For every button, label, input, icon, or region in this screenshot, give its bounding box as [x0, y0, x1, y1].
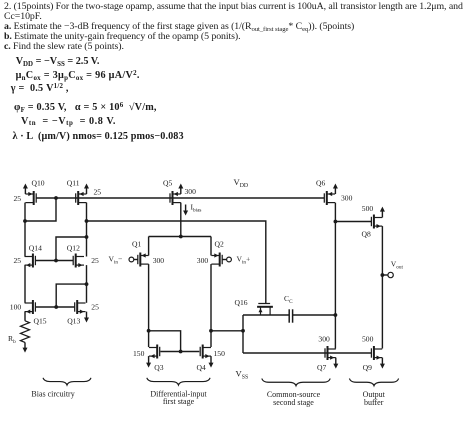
svg-text:100: 100 [10, 303, 22, 312]
wire Q12 source to Q13 drain [86, 265, 88, 303]
label Q9 [363, 363, 372, 372]
svg-text:25: 25 [91, 256, 99, 265]
terminal Vout [388, 272, 393, 277]
value 25 (Q13) [91, 303, 99, 312]
svg-text:150: 150 [214, 349, 226, 358]
node Q16 branch junction [241, 329, 245, 333]
transistor Q16 [257, 304, 273, 315]
svg-text:Ibias: Ibias [191, 203, 202, 214]
wire Q13 diode connection [56, 284, 86, 307]
svg-text:300: 300 [185, 187, 197, 196]
svg-text:Q13: Q13 [67, 317, 80, 326]
svg-text:Q8: Q8 [362, 230, 371, 239]
label VSS [236, 369, 249, 381]
node Q1-Q3 junction [147, 329, 151, 333]
value 300 (Q7) [318, 335, 330, 344]
node Q3-Q4 gate junction [179, 350, 183, 354]
node Q15-Q13 gate junction [54, 305, 58, 309]
svg-text:300: 300 [197, 256, 209, 265]
transistor Q13 [75, 300, 89, 323]
svg-text:second stage: second stage [273, 398, 314, 407]
label Q4 [197, 363, 206, 372]
svg-text:Q1: Q1 [132, 240, 141, 249]
label Q5 [163, 179, 172, 188]
wire Q1 drain to Q3 drain [148, 264, 150, 347]
wire Vout lead [382, 274, 388, 276]
svg-text:Vout: Vout [391, 260, 404, 271]
wire Q16 source to Cc left plate [243, 314, 289, 316]
node gate rail junction [54, 196, 58, 200]
label Q14 [29, 244, 42, 253]
wire Q14-Q12 gate line [35, 260, 73, 262]
svg-text:Q5: Q5 [163, 179, 172, 188]
svg-text:first stage: first stage [163, 397, 195, 406]
wire Q15-Q13 gate line [35, 306, 75, 308]
svg-text:Q7: Q7 [317, 363, 326, 372]
problem statement item a [4, 22, 354, 32]
label Q7 [317, 363, 326, 372]
value 300 (Q6) [341, 194, 353, 203]
value 300 (Q1) [153, 256, 165, 265]
transistor Q4 [200, 345, 213, 368]
wire differential pair tail [149, 236, 211, 238]
label Vout [391, 260, 404, 271]
value 300 (Q2) [197, 256, 209, 265]
svg-text:Q9: Q9 [363, 363, 372, 372]
problem statement item c [4, 42, 124, 52]
brace output buffer [349, 379, 398, 386]
caption Bias circuitry [31, 389, 74, 398]
transistor Q8 [371, 207, 385, 229]
svg-text:25: 25 [14, 256, 22, 265]
svg-text:Q3: Q3 [154, 363, 163, 372]
svg-text:Q16: Q16 [235, 298, 248, 307]
brace bias circuitry [43, 378, 91, 385]
problem statement item b [4, 32, 241, 42]
wire Q16 branch vertical [242, 315, 244, 353]
value 150 (Q4) [214, 349, 226, 358]
node Vout tap [381, 273, 385, 277]
label Rb [8, 334, 16, 345]
resistor Rb [21, 321, 30, 353]
svg-text:150: 150 [133, 349, 145, 358]
caption Common-source [267, 390, 321, 399]
label Vin- [109, 255, 123, 266]
node Cc tap [334, 313, 338, 317]
wire Q3-Q4 gate line [160, 351, 199, 353]
wire Q10 diode loop [25, 198, 56, 221]
label Cc [284, 294, 293, 305]
label Q8 [362, 230, 371, 239]
label Q13 [67, 317, 80, 326]
caption first stage [163, 397, 195, 406]
caption buffer [364, 398, 384, 407]
label Vin+ [237, 255, 251, 266]
label Q11 [67, 179, 80, 188]
label Q2 [215, 240, 224, 249]
formula phiF alpha [14, 103, 157, 113]
label Q10 [32, 179, 45, 188]
label Q1 [132, 240, 141, 249]
svg-text:CC: CC [284, 294, 293, 305]
wire Q5 drain to tail node [180, 203, 182, 237]
svg-text:Q14: Q14 [29, 244, 42, 253]
value 300 (Q5) [185, 187, 197, 196]
svg-text:Q15: Q15 [34, 317, 47, 326]
wire Q1 source up [148, 237, 150, 256]
node Q11 drain junction bias line [85, 219, 89, 223]
formula VDD [16, 57, 100, 67]
transistor Q7 [325, 346, 338, 369]
transistor Q9 [371, 346, 385, 369]
node tail junction [179, 235, 183, 239]
wire first-stage output to Q16 branch [211, 330, 243, 332]
svg-text:25: 25 [14, 194, 22, 203]
brace differential input first stage [147, 378, 210, 385]
node first-stage output [209, 329, 213, 333]
formula gamma [11, 84, 69, 94]
svg-text:300: 300 [153, 256, 165, 265]
wire gate-bias rail Q10-Q11-Q5-Q6 [36, 197, 324, 199]
transistor Q14 [25, 254, 36, 268]
wire Q2 drain to Q4 drain [210, 264, 212, 347]
value 25 (Q10) [14, 194, 22, 203]
svg-text:300: 300 [318, 335, 330, 344]
transistor Q3 [146, 345, 160, 368]
transistor Q12 [73, 254, 84, 268]
formula unCox [16, 71, 140, 81]
node Q14-Q12 gate junction [54, 259, 58, 263]
wire Cc right plate to second-stage output [293, 314, 336, 316]
node Q11-Q12 drain junction [85, 235, 89, 239]
wire Q10 drain to Q14 drain [24, 203, 26, 257]
node second-stage output top [334, 220, 338, 224]
svg-text:500: 500 [362, 335, 374, 344]
value 500 (Q9) [362, 335, 374, 344]
svg-text:Vin−: Vin− [109, 255, 123, 266]
transistor Q15 [25, 300, 36, 314]
svg-text:Bias circuitry: Bias circuitry [31, 389, 74, 398]
wire Q3 diode connection [149, 331, 181, 352]
wire Q2 source up [210, 237, 212, 256]
svg-text:Rb: Rb [8, 334, 16, 345]
label Q3 [154, 363, 163, 372]
svg-text:Q11: Q11 [67, 179, 80, 188]
wire bias line to Q16 gate [87, 221, 266, 303]
value 500 (Q8) [362, 204, 374, 213]
transistor Q2 [211, 253, 231, 267]
svg-text:300: 300 [341, 194, 353, 203]
caption Differential-input [150, 389, 207, 398]
value 25 (Q11) [94, 188, 102, 197]
label Q12 [67, 244, 80, 253]
problem statement line 2 [4, 12, 42, 22]
current arrow Ibias [183, 205, 188, 216]
value 25 (Q12) [91, 256, 99, 265]
transistor Q1 [129, 253, 149, 267]
transistor Q10 [23, 184, 36, 206]
svg-text:Q12: Q12 [67, 244, 80, 253]
svg-text:25: 25 [91, 303, 99, 312]
label Q16 [235, 298, 248, 307]
svg-text:VDD: VDD [234, 177, 249, 189]
label Q15 [34, 317, 47, 326]
wire Q12 diode connection [56, 237, 87, 261]
wire Q6 drain to Q7 drain [334, 203, 336, 349]
wire second-stage gate line to Q7 and Q9 [243, 352, 371, 354]
transistor Q5 [170, 184, 183, 206]
transistor Q6 [324, 184, 338, 206]
node Q10 drain junction [23, 219, 27, 223]
label VDD [234, 177, 249, 189]
svg-text:Q6: Q6 [316, 179, 325, 188]
value 25 (Q14) [14, 256, 22, 265]
capacitor Cc [289, 309, 292, 322]
svg-text:Q4: Q4 [197, 363, 206, 372]
wire Q8 source to Q9 drain [381, 226, 383, 348]
wire Q11 drain to Q12 drain [86, 203, 88, 257]
transistor Q11 [76, 184, 89, 206]
svg-text:VSS: VSS [236, 369, 249, 381]
value 150 (Q3) [133, 349, 145, 358]
brace common-source second stage [262, 379, 330, 386]
caption second stage [273, 398, 314, 407]
svg-text:Vin+: Vin+ [237, 255, 251, 266]
label Ibias [191, 203, 202, 214]
svg-text:Q2: Q2 [215, 240, 224, 249]
label Q6 [316, 179, 325, 188]
problem statement line 1 [4, 2, 463, 12]
formula Vtn [21, 117, 116, 127]
wire Q14 source to Q15 drain [24, 265, 26, 303]
svg-text:25: 25 [94, 188, 102, 197]
svg-text:Q10: Q10 [32, 179, 45, 188]
value 100 (Q15) [10, 303, 22, 312]
wire Q15 source to resistor [24, 312, 26, 321]
svg-text:buffer: buffer [364, 398, 384, 407]
caption Output [363, 390, 386, 399]
node Q12-Q13 junction [85, 282, 89, 286]
wire Q6 drain to Q8 gate [335, 221, 371, 223]
formula lambda L [13, 132, 184, 142]
svg-text:500: 500 [362, 204, 374, 213]
